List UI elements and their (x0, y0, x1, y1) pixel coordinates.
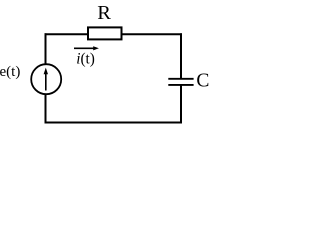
wire left vertical upper (top corner down to source) (45, 33, 47, 65)
wire top-right segment (resistor to right corner) (122, 33, 183, 35)
wire right vertical upper (top corner to capacitor) (180, 33, 182, 78)
svg-text:i(t): i(t) (76, 51, 95, 68)
svg-text:C: C (196, 71, 209, 92)
wire bottom segment (45, 122, 183, 124)
resistor R (box) (88, 27, 122, 39)
current arrow i(t) (74, 46, 99, 50)
wire left vertical lower (source to bottom wire) (45, 94, 47, 124)
wire right vertical lower (capacitor to bottom wire) (180, 86, 182, 124)
wire top-left segment (source to resistor) (45, 33, 89, 35)
svg-text:R: R (97, 2, 111, 24)
capacitor C (plates) (168, 79, 193, 85)
voltage source e(t) (circle with up arrow) (31, 64, 61, 94)
svg-text:e(t): e(t) (0, 64, 20, 80)
